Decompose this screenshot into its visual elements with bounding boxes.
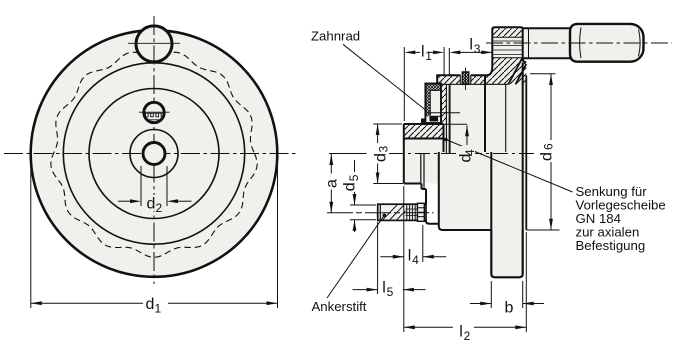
svg-text:3: 3 (376, 146, 390, 153)
bore circle d2 (143, 143, 165, 165)
svg-text:d: d (341, 182, 358, 191)
grip outline (570, 24, 644, 62)
top band hatch left (437, 75, 460, 84)
svg-text:b: b (505, 299, 514, 316)
boss top fill (492, 27, 522, 75)
axis centerline right view (329, 153, 367, 155)
dimension b (470, 281, 544, 308)
dimension d1 (31, 158, 278, 308)
boss bore thread lines (494, 41, 523, 55)
handle circle vertical centerline part (153, 16, 155, 70)
hub bore top line (404, 138, 444, 140)
svg-text:3: 3 (474, 42, 481, 56)
handle circle tick (128, 42, 180, 44)
svg-text:4: 4 (463, 149, 477, 156)
stem fill (523, 28, 570, 58)
dimension d5 (350, 160, 376, 232)
grip fill (570, 24, 644, 62)
dimension d6 (526, 74, 559, 230)
boss right face lower (522, 63, 524, 231)
svg-text:Zahnrad: Zahnrad (311, 29, 360, 44)
web plate right edge (445, 84, 447, 153)
rim right face (525, 75, 527, 230)
gear teeth inside window (143, 113, 166, 120)
rim inner tangent thin (505, 84, 507, 152)
svg-text:5: 5 (387, 285, 394, 299)
drum front face top half (449, 84, 451, 153)
web plate hatch (442, 84, 447, 124)
web slant bold edges (508, 59, 526, 85)
hub block fill (404, 124, 444, 184)
groove walls (460, 75, 471, 84)
pin sparse hatch (383, 205, 406, 220)
svg-text:l: l (469, 37, 473, 54)
pin leader dot (383, 214, 387, 218)
svg-text:2: 2 (156, 201, 163, 215)
svg-text:6: 6 (542, 143, 556, 150)
dimension d4 (444, 124, 468, 145)
vertical centerline (153, 16, 155, 284)
wavy dashed grip recess circle (51, 52, 257, 257)
boss top hatch (492, 29, 522, 38)
svg-text:2: 2 (464, 329, 471, 343)
hub outline (404, 124, 444, 204)
mid disc fill (404, 75, 492, 230)
dimension l1 (404, 47, 444, 121)
dimension d2 (118, 166, 192, 206)
drum below axis (426, 152, 491, 230)
svg-text:Befestigung: Befestigung (576, 238, 646, 253)
gear tooth in groove (462, 72, 468, 84)
svg-text:l: l (408, 248, 412, 265)
pin hole walls (421, 154, 424, 189)
stem outline (523, 28, 570, 58)
svg-text:a: a (323, 179, 340, 188)
rim left face top half (484, 75, 486, 152)
rim left face bottom half (490, 152, 492, 230)
dimension l3 (449, 48, 492, 75)
hub circle (130, 130, 178, 178)
Senkung leader (444, 138, 448, 142)
wheel outer rim circle d1 (31, 30, 278, 277)
dimension l4 (380, 186, 446, 332)
handle centerline (486, 42, 672, 44)
part fills (404, 24, 644, 277)
rim inner circle (63, 63, 244, 244)
web circle (89, 89, 219, 219)
grip shading lines (580, 28, 581, 59)
web top edge (437, 67, 492, 84)
Ankerstift pin (378, 203, 426, 221)
svg-text:d: d (538, 152, 555, 161)
boss outline (492, 27, 526, 66)
top band + boss lower + sliver hatch (471, 58, 527, 85)
svg-text:d: d (372, 153, 389, 162)
top band bottom thin line (442, 83, 508, 85)
svg-text:1: 1 (155, 302, 162, 316)
stem shoulder line (528, 28, 530, 58)
svg-text:5: 5 (347, 174, 361, 181)
svg-text:l: l (382, 279, 386, 296)
hub hatch (404, 124, 444, 139)
svg-text:l: l (459, 323, 463, 340)
hatching (404, 29, 527, 139)
gear (Zahnrad) (421, 84, 441, 125)
horizontal centerline (4, 153, 297, 155)
knurl (407, 204, 415, 220)
svg-text:4: 4 (412, 253, 419, 267)
dimension l5 (353, 222, 426, 294)
svg-text:d: d (147, 196, 156, 213)
svg-text:Ankerstift: Ankerstift (312, 299, 367, 314)
dimension a (330, 154, 332, 213)
bottom boss fill (491, 230, 522, 277)
bottom boss outline (491, 230, 522, 277)
svg-text:d: d (146, 296, 155, 313)
handle circle (136, 26, 172, 62)
dimension l2 (404, 232, 527, 332)
svg-text:1: 1 (425, 49, 432, 63)
gear window circle (144, 102, 164, 122)
dimension d3 (373, 124, 403, 184)
hub right face (443, 124, 445, 152)
gear window tick (139, 111, 170, 113)
pin centerline (327, 212, 434, 214)
svg-text:l: l (421, 44, 425, 61)
